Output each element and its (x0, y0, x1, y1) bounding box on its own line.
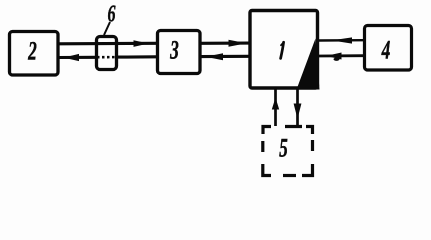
box 5 dashed: bottom-right corner (302, 164, 313, 176)
box 4 (365, 26, 412, 71)
wire bottom line 3-1 (201, 55, 249, 58)
black triangle in box 1 corner (297, 39, 320, 90)
box 5 dashed: bottom dash (283, 174, 296, 177)
wire bottom line 6-3 (117, 55, 156, 58)
arrowhead down on right 1-5 wire (294, 104, 302, 120)
box 5 dashed: bottom-left corner (263, 164, 271, 176)
box 5 dashed: top dash (285, 125, 302, 128)
arrowhead right toward box 1 (229, 40, 247, 47)
box 1 (250, 11, 318, 89)
box 5 dashed: left dash (261, 141, 264, 152)
svg-text:6: 6 (107, 2, 116, 28)
wire vertical 1-5 left (274, 89, 277, 126)
arrowhead left on bottom 4-1 wire (326, 53, 342, 60)
box 5 dashed: top-right corner (306, 127, 313, 135)
arrowhead left toward box 2 (64, 54, 80, 61)
wire vertical 1-5 right (296, 89, 299, 126)
svg-text:3: 3 (169, 35, 178, 64)
arrowhead left on top 4-1 wire (332, 37, 353, 43)
wire top line 2-3 through cell 6 (59, 42, 156, 46)
wire bottom line 2-6 (59, 56, 96, 59)
svg-text:4: 4 (381, 35, 390, 64)
component 6 cell (97, 37, 117, 70)
svg-text:5: 5 (279, 133, 288, 162)
ink blot below arrowhead (334, 58, 340, 61)
box 3 (158, 31, 201, 74)
wire top line 3-1 (201, 42, 249, 45)
box 5 dashed: right dash (311, 140, 314, 151)
box 2 (10, 32, 59, 76)
arrowhead up on left 1-5 wire (272, 98, 279, 110)
svg-text:2: 2 (27, 36, 36, 65)
box 5 dashed: top-left corner (263, 127, 271, 135)
leader line to label 6 (104, 22, 110, 35)
arrowhead left toward box 3 (206, 53, 224, 60)
label 1 (281, 42, 284, 58)
wire top line 4-1 (319, 39, 363, 42)
arrowhead right between 6 and 3 (134, 40, 149, 47)
wire bottom line 4-1 (319, 54, 363, 57)
wire bottom line dotted inside 6 (97, 56, 117, 59)
